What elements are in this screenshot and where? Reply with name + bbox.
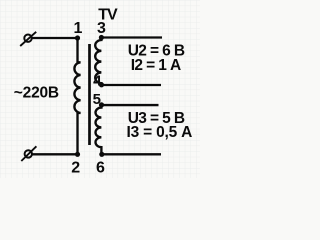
svg-text:5: 5 (93, 91, 101, 108)
svg-text:I2 = 1 А: I2 = 1 А (131, 57, 181, 74)
svg-text:I3 = 0,5 А: I3 = 0,5 А (127, 124, 193, 141)
svg-text:3: 3 (97, 20, 106, 37)
svg-text:6: 6 (96, 160, 105, 177)
svg-text:2: 2 (71, 160, 80, 177)
svg-text:4: 4 (93, 72, 102, 89)
svg-text:~220В: ~220В (14, 85, 59, 102)
svg-text:1: 1 (74, 20, 83, 37)
